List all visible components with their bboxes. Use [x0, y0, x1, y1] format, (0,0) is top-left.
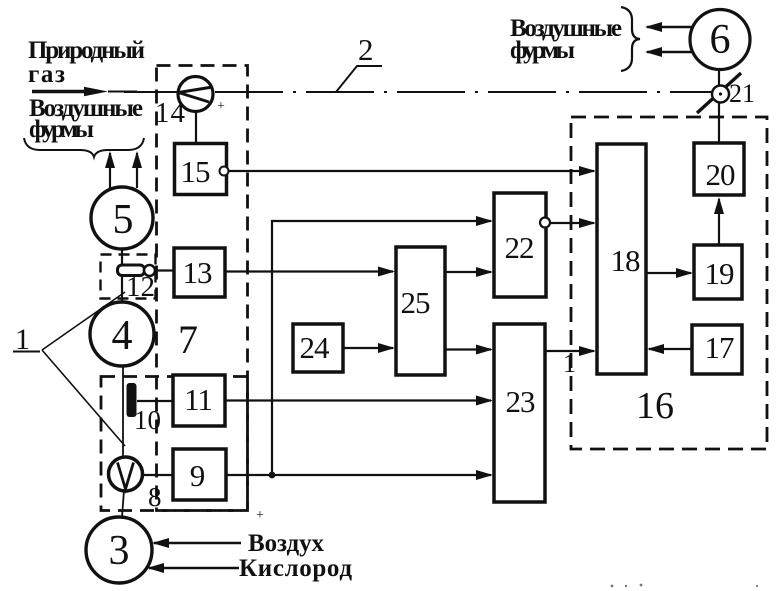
svg-text:газ: газ — [28, 61, 65, 88]
svg-text:10: 10 — [134, 405, 161, 435]
svg-text:фурмы: фурмы — [29, 116, 94, 143]
svg-text:6: 6 — [710, 17, 731, 63]
svg-text:23: 23 — [506, 384, 536, 419]
svg-text:11: 11 — [184, 382, 212, 417]
svg-text:4: 4 — [112, 313, 133, 359]
svg-text:фурмы: фурмы — [510, 37, 575, 64]
svg-text:9: 9 — [190, 458, 205, 493]
svg-text:24: 24 — [300, 330, 331, 365]
svg-text:20: 20 — [706, 157, 736, 192]
svg-text:21: 21 — [729, 79, 755, 108]
svg-text:+: + — [217, 99, 225, 114]
svg-text:7: 7 — [178, 317, 198, 362]
svg-text:13: 13 — [183, 255, 213, 290]
svg-text:17: 17 — [705, 330, 735, 365]
svg-text:12: 12 — [126, 271, 155, 303]
svg-text:22: 22 — [505, 230, 534, 265]
svg-text:+: + — [256, 508, 264, 523]
svg-text:Воздух: Воздух — [248, 530, 325, 557]
svg-text:1: 1 — [563, 349, 576, 378]
svg-text:8: 8 — [148, 482, 162, 512]
svg-text:2: 2 — [358, 32, 374, 67]
svg-text:15: 15 — [181, 154, 211, 189]
svg-text:Кислород: Кислород — [239, 555, 352, 582]
svg-text:1: 1 — [15, 323, 30, 356]
svg-text:25: 25 — [401, 285, 431, 320]
svg-text:18: 18 — [611, 243, 641, 278]
svg-text:Природный: Природный — [28, 37, 145, 64]
svg-text:14: 14 — [155, 97, 186, 129]
svg-text:5: 5 — [113, 197, 134, 243]
svg-text:3: 3 — [109, 528, 130, 574]
svg-text:16: 16 — [636, 385, 674, 427]
svg-text:19: 19 — [705, 256, 735, 291]
